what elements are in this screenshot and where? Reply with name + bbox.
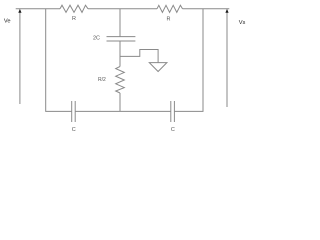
ground symbol triangle [149,63,167,72]
wire middle vertical above 2C [119,9,121,37]
wire middle vertical below 2C to node [119,41,121,67]
wire left branch vertical + bottom rail left [46,9,72,112]
wire bottom rail middle [75,110,171,112]
svg-text:R: R [72,16,76,22]
node Ve arrowhead [18,9,21,13]
node Ve input arrow wire [19,12,21,104]
resistor R2 [157,5,183,12]
svg-text:2C: 2C [93,36,100,42]
svg-text:C: C [171,127,175,133]
wire ground branch [120,50,158,63]
svg-text:R/2: R/2 [98,77,106,83]
wire middle vertical below R/2 [119,93,121,111]
wire top rail middle segment [88,8,157,10]
svg-text:R: R [167,17,171,23]
node Vs output arrow wire [226,12,228,107]
resistor R/2 (vertical zigzag) [116,67,125,94]
capacitor 2C plates [107,37,136,41]
capacitor C2 plates [171,101,175,122]
wire top rail left segment [16,8,60,10]
node Vs arrowhead [225,9,228,13]
wire bottom rail right + right branch vertical [174,9,203,112]
capacitor C1 plates [72,101,76,122]
wire top rail right segment [183,8,230,10]
svg-text:C: C [72,127,76,133]
svg-text:Ve: Ve [4,19,11,25]
resistor R1 [60,5,88,12]
svg-text:Vs: Vs [239,20,246,26]
